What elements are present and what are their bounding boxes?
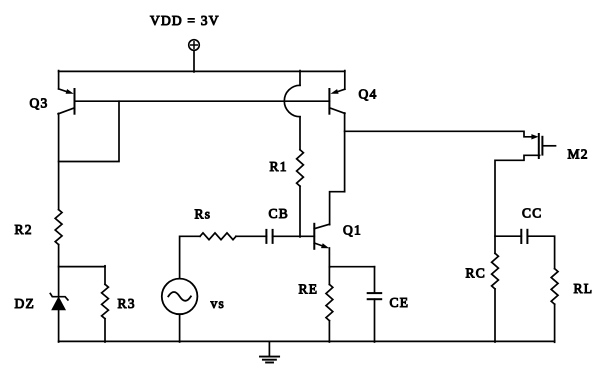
svg-text:Q1: Q1 [343,223,362,238]
capacitor CC [520,230,522,243]
wire output node to M2 gate [345,131,533,137]
wire R3 top lead [104,266,106,285]
wire RE top lead [328,267,330,285]
svg-text:M2: M2 [568,147,589,162]
svg-text:R1: R1 [270,159,288,174]
diode DZ zener [50,294,68,300]
svg-text:CB: CB [269,206,289,221]
wire vs top to Rs [180,236,200,278]
transistor M2 drain stub [542,145,555,147]
wire node to CC [495,235,521,237]
resistor R1 [297,150,304,187]
wire CE top lead [374,267,376,293]
svg-text:R2: R2 [15,222,33,237]
transistor M2 channel bar [541,137,543,155]
wire R2 to DZ node [58,245,60,297]
svg-text:Q4: Q4 [359,87,378,102]
ground rail [59,340,555,342]
source vs circle [162,279,198,315]
transistor Q3 [58,71,60,89]
svg-text:Q3: Q3 [30,96,49,111]
svg-text:vs: vs [211,296,225,311]
wire R3 bottom lead [104,319,106,342]
svg-text:CC: CC [522,206,542,221]
power symbol VDD [189,40,200,51]
source vs sine wave [168,292,191,301]
resistor RC [492,253,499,289]
resistor R1 top lead with hop over base rail [299,71,301,86]
wire Q3 collector down [58,113,60,209]
resistor R3 [102,284,109,318]
svg-text:Rs: Rs [195,207,212,222]
wire RE bottom to ground rail [328,321,330,342]
wire RL bottom to ground rail [554,304,556,342]
svg-text:DZ: DZ [15,296,35,311]
wire node to R3 [59,266,105,268]
wire Q4 collector down to jog [344,113,346,192]
wire vs bottom to ground rail [179,314,181,342]
wire VDD stub [193,50,195,72]
transistor M2 source lead [495,155,540,253]
wire CC to RL [527,236,554,268]
resistor RE [326,284,333,320]
transistor Q1 [313,224,315,249]
svg-text:R3: R3 [118,296,136,311]
wire Q3 base rail to Q4 [75,100,330,102]
capacitor CB [265,230,267,243]
ground symbol [268,341,270,356]
svg-text:RL: RL [574,281,594,296]
resistor Rs [200,233,236,240]
wire Q3 diode connection [59,101,119,161]
wire Q1 emitter down [328,248,330,267]
svg-text:RE: RE [299,282,319,297]
capacitor CE [368,292,382,294]
transistor Q4 [344,71,346,90]
transistor M2 gate bar [538,134,540,158]
wire RC bottom to ground rail [494,289,496,342]
wire CB to Q1 base [273,235,315,237]
wire Rs to CB [236,235,266,237]
resistor R2 [55,210,62,245]
wire R1 bottom to Q1 base [299,186,301,237]
wire emitter node to CE [329,266,374,268]
wire VDD rail [59,70,345,72]
svg-text:VDD = 3V: VDD = 3V [150,13,220,28]
svg-text:RC: RC [466,266,486,281]
wire jog to Q1 collector [330,192,345,225]
svg-text:CE: CE [390,295,410,310]
resistor RL [551,269,558,305]
wire CE bottom to ground rail [374,299,376,342]
